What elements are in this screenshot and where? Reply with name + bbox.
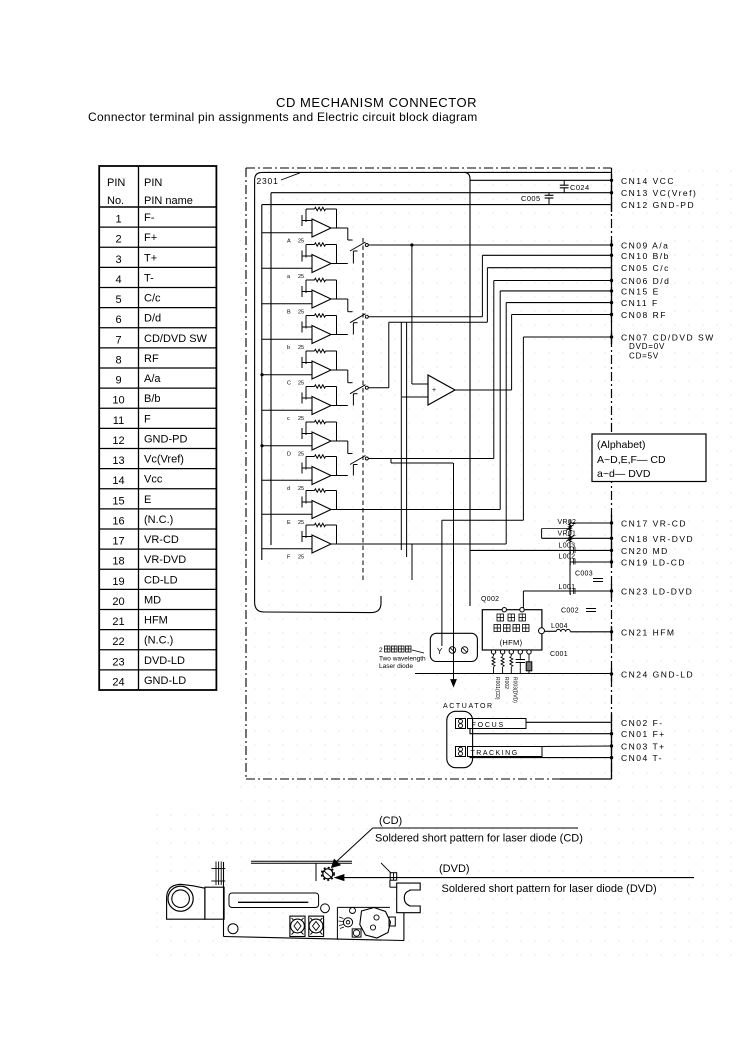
laser diode label [379, 646, 426, 670]
inductor L001 [559, 584, 576, 595]
svg-text:2301: 2301 [257, 176, 279, 186]
svg-text:L004: L004 [551, 623, 568, 630]
svg-text:R002: R002 [503, 677, 509, 689]
op-amp U6 (c channel) [262, 385, 348, 422]
wire MD to CN20 [470, 549, 612, 551]
svg-text:a~d— DVD: a~d— DVD [597, 468, 651, 480]
svg-text:L002: L002 [559, 554, 576, 561]
svg-text:CD MECHANISM CONNECTOR: CD MECHANISM CONNECTOR [276, 95, 477, 110]
svg-text:(N.C.): (N.C.) [144, 635, 173, 647]
op-amp U7 (D channel) [262, 420, 348, 457]
svg-text:VR-DVD: VR-DVD [144, 554, 186, 566]
leader DVD to bracket [381, 863, 391, 873]
svg-text:25: 25 [298, 555, 304, 561]
svg-text:CN20 MD: CN20 MD [621, 546, 669, 556]
mech screw shaft [211, 862, 225, 886]
pin CN02 [621, 718, 664, 728]
svg-text:FOCUS: FOCUS [472, 722, 506, 729]
svg-text:CN11 F: CN11 F [621, 298, 659, 308]
outer chain-line frame [246, 168, 612, 779]
mech DVD solder box [390, 873, 397, 888]
pin CN08 [610, 310, 667, 320]
svg-text:11: 11 [113, 415, 124, 427]
svg-text:Vc(Vref): Vc(Vref) [144, 454, 184, 466]
svg-text:CN09 A/a: CN09 A/a [621, 241, 669, 251]
svg-text:CN07 CD/DVD SW: CN07 CD/DVD SW [621, 333, 715, 343]
svg-text:Soldered short pattern for las: Soldered short pattern for laser diode (… [375, 833, 583, 845]
switch SW3 [348, 370, 369, 406]
HFM output pin [539, 628, 545, 634]
mech sled screw [350, 908, 362, 938]
svg-text:F+: F+ [144, 232, 157, 244]
svg-text:3: 3 [115, 254, 121, 266]
svg-text:25: 25 [298, 452, 304, 458]
svg-text:21: 21 [112, 616, 124, 628]
svg-text:CN24 GND-LD: CN24 GND-LD [621, 670, 694, 680]
svg-text:CD=5V: CD=5V [629, 352, 659, 361]
svg-text:PIN: PIN [107, 177, 125, 189]
svg-text:25: 25 [298, 239, 304, 245]
svg-text:E: E [144, 494, 151, 506]
connector column CN line [611, 168, 613, 779]
svg-text:CN12 GND-PD: CN12 GND-PD [621, 200, 695, 210]
callout (DVD) [344, 863, 694, 895]
resistor R001(CD) [492, 654, 500, 700]
svg-text:CN03 T+: CN03 T+ [621, 742, 666, 752]
svg-text:Q002: Q002 [481, 596, 499, 603]
svg-text:25: 25 [298, 345, 304, 351]
wire F- to CN02 [526, 721, 612, 723]
callout (CD) [373, 815, 583, 845]
svg-text:Laser diode: Laser diode [379, 663, 413, 670]
wire B/b to CN10 [368, 255, 611, 316]
switch SW4 [348, 441, 369, 476]
capacitor C001 [516, 651, 568, 674]
svg-text:16: 16 [112, 515, 124, 527]
potentiometer VR01 [558, 531, 577, 543]
svg-text:Soldered short pattern for las: Soldered short pattern for laser diode (… [442, 883, 657, 895]
svg-text:L001: L001 [559, 584, 576, 591]
svg-text:(HFM): (HFM) [500, 638, 523, 647]
mech motor 1 [290, 916, 305, 936]
svg-text:CN17 VR-CD: CN17 VR-CD [621, 519, 687, 529]
solder pattern gear CD [322, 868, 335, 881]
svg-text:MD: MD [144, 594, 161, 606]
svg-text:25: 25 [298, 381, 304, 387]
svg-text:DVD-LD: DVD-LD [144, 655, 185, 667]
wire to laser diode anode [441, 520, 443, 646]
svg-text:(Alphabet): (Alphabet) [597, 439, 645, 451]
op-amp U1 (A channel) [262, 207, 348, 244]
wire CD/DVD SW to CN07 [442, 337, 612, 520]
wire T+ to CN03 [542, 745, 612, 748]
op-amp U2 (a channel) [262, 243, 348, 280]
svg-text:VR01: VR01 [558, 531, 577, 538]
svg-text:Connector terminal pin assignm: Connector terminal pin assignments and E… [88, 110, 477, 124]
svg-text:CN04 T-: CN04 T- [621, 753, 663, 763]
svg-text:CN05 C/c: CN05 C/c [621, 263, 670, 273]
scan dot background [240, 166, 740, 806]
svg-text:8: 8 [115, 354, 121, 366]
pin CN05 [621, 263, 670, 273]
wire laser return with arrow [391, 459, 456, 687]
svg-text:(CD): (CD) [379, 815, 402, 827]
pin CN20 [610, 546, 669, 556]
switch SW2 [348, 299, 369, 335]
svg-text:14: 14 [112, 475, 124, 487]
svg-text:CN23 LD-DVD: CN23 LD-DVD [621, 587, 693, 597]
mech spindle assembly [360, 908, 391, 939]
pin CN12 [621, 200, 695, 210]
svg-text:T-: T- [144, 272, 154, 284]
inductor L002 [559, 554, 576, 566]
svg-text:CN13 VC(Vref): CN13 VC(Vref) [621, 188, 697, 198]
wire A/a to CN09 [368, 244, 611, 246]
op-amp U3 (B channel) [262, 278, 348, 315]
wire GND-PD to CN12 [262, 204, 612, 206]
wire T- to CN04 [470, 757, 612, 758]
svg-text:c: c [287, 416, 290, 422]
op-amp U5 (C channel) [262, 349, 348, 386]
capacitor C024 [560, 180, 590, 192]
svg-text:18: 18 [112, 556, 124, 568]
svg-text:D: D [287, 452, 291, 458]
svg-text:6: 6 [115, 314, 121, 326]
svg-text:F-: F- [144, 212, 155, 224]
svg-text:CD/DVD SW: CD/DVD SW [144, 333, 208, 345]
svg-text:C001: C001 [550, 651, 568, 658]
wire VR-DVD to CN18 [542, 529, 612, 539]
pin CN04 [610, 753, 663, 763]
resistor R002 [501, 654, 509, 689]
svg-text:CN18 VR-DVD: CN18 VR-DVD [621, 534, 694, 544]
svg-text:C/c: C/c [144, 293, 161, 305]
svg-text:d: d [287, 486, 290, 492]
mech clamp bracket [397, 883, 421, 913]
svg-text:CN14 VCC: CN14 VCC [621, 176, 675, 186]
svg-text:CN08 RF: CN08 RF [621, 310, 667, 320]
capacitor C003 [575, 571, 603, 582]
svg-text:F: F [144, 413, 151, 425]
svg-text:C002: C002 [561, 608, 579, 615]
svg-text:VR02: VR02 [558, 519, 577, 526]
wire F+ to CN01 [470, 729, 612, 734]
potentiometer VR02 [558, 519, 577, 531]
mech hole left [228, 924, 238, 934]
svg-text:17: 17 [112, 536, 124, 548]
switch SW1 [348, 228, 369, 264]
svg-text:DVD=0V: DVD=0V [629, 342, 665, 351]
svg-text:C003: C003 [575, 571, 593, 578]
svg-text:A: A [287, 239, 291, 245]
svg-text:RF: RF [144, 353, 159, 365]
mech body outline [224, 862, 405, 941]
svg-text:25: 25 [298, 416, 304, 422]
svg-text:GND-LD: GND-LD [144, 675, 186, 687]
svg-text:C005: C005 [521, 194, 541, 203]
svg-text:VR-CD: VR-CD [144, 534, 179, 546]
svg-text:13: 13 [112, 455, 124, 467]
wire HFM ground pin with bead L005 [528, 654, 530, 673]
pin CN07 [610, 333, 715, 343]
inductor L003 [559, 543, 576, 555]
svg-text:CD-LD: CD-LD [144, 574, 178, 586]
svg-text:15: 15 [112, 495, 124, 507]
svg-text:HFM: HFM [144, 615, 168, 627]
svg-text:25: 25 [298, 310, 304, 316]
wire LD-CD to CN19 [570, 561, 612, 563]
pin CN17 [610, 519, 687, 529]
mech hole right of slot [321, 904, 330, 913]
wire VCC to CN14 [464, 172, 470, 606]
resistor R003(DVD) [510, 654, 518, 703]
pin CN10 [610, 251, 670, 261]
svg-text:PIN name: PIN name [144, 195, 193, 207]
svg-text:b: b [287, 345, 290, 351]
svg-text:CN02 F-: CN02 F- [621, 718, 664, 728]
mech left bearing block [167, 884, 205, 919]
svg-text:CN19 LD-CD: CN19 LD-CD [621, 558, 686, 568]
svg-text:D/d: D/d [144, 313, 161, 325]
op-amp U9 (E channel) [262, 489, 348, 526]
svg-text:R003(DVD): R003(DVD) [512, 677, 518, 703]
svg-text:CN06 D/d: CN06 D/d [621, 276, 670, 286]
svg-text:R001(CD): R001(CD) [494, 677, 500, 700]
pin CN23 [610, 587, 693, 597]
pin CN11 [610, 298, 659, 308]
svg-text:No.: No. [107, 195, 124, 207]
svg-text:ACTUATOR: ACTUATOR [443, 703, 494, 710]
svg-text:19: 19 [112, 576, 124, 588]
component chain stem [569, 520, 571, 594]
wire RF to CN08 [455, 315, 612, 391]
svg-text:Y: Y [437, 647, 443, 656]
HFM block kanji text line1 [497, 614, 526, 621]
svg-text:Vcc: Vcc [144, 474, 163, 486]
wire D/d to CN06 [368, 281, 611, 459]
svg-text:1: 1 [115, 214, 121, 226]
wire Vc(Vref) to CN13 [271, 192, 612, 194]
pin CN03 [610, 742, 666, 752]
svg-text:A~D,E,F— CD: A~D,E,F— CD [597, 454, 666, 466]
wire junction drop [411, 245, 413, 384]
leader arrow CD [332, 828, 373, 868]
svg-text:10: 10 [112, 395, 124, 407]
svg-text:(N.C.): (N.C.) [144, 514, 173, 526]
op-amp U10 (F channel) [262, 523, 348, 560]
wire GND-LD to CN24 [415, 673, 612, 675]
svg-text:2: 2 [379, 647, 383, 654]
wire RF input drops [401, 322, 412, 580]
svg-text:E: E [287, 520, 291, 526]
mech top plate [251, 861, 352, 881]
leader arrow DVD [335, 875, 344, 881]
HFM block kanji text line2 [494, 625, 529, 632]
svg-text:Two wavelength: Two wavelength [379, 656, 426, 663]
mech worm gear [339, 917, 353, 929]
svg-text:CN21 HFM: CN21 HFM [621, 627, 676, 637]
svg-text:25: 25 [298, 274, 304, 280]
wire F to CN11 [331, 303, 612, 544]
op-amp U8 (d channel) [262, 455, 348, 492]
capacitor C005 [521, 193, 553, 205]
svg-text:2: 2 [115, 234, 121, 246]
pin CN15 [610, 286, 660, 296]
svg-text:4: 4 [115, 274, 121, 286]
inductor L004 on HFM wire to CN21 [545, 623, 612, 632]
CN07 voltage note [629, 342, 665, 361]
pin CN13 [610, 188, 698, 198]
pin CN01 [610, 729, 666, 739]
svg-text:20: 20 [112, 596, 124, 608]
wire E to CN15 [331, 291, 612, 510]
svg-text:24: 24 [112, 676, 124, 688]
wire VR-CD to CN17 [570, 522, 612, 524]
svg-text:(DVD): (DVD) [439, 863, 470, 875]
svg-text:A/a: A/a [144, 373, 161, 385]
actuator outline [447, 711, 473, 767]
svg-text:+: + [432, 387, 436, 394]
svg-text:T+: T+ [144, 252, 157, 264]
op-amp U4 (b channel) [262, 314, 348, 351]
pin assignment table [99, 166, 216, 690]
HFM circuit block [482, 608, 542, 651]
mech motor 2 [309, 916, 324, 936]
svg-text:25: 25 [298, 520, 304, 526]
svg-text:L003: L003 [559, 543, 576, 550]
pickup boundary dashed line [362, 238, 364, 583]
mech slot [229, 893, 319, 908]
pin CN21 [610, 627, 676, 637]
svg-text:23: 23 [112, 656, 124, 668]
svg-text:7: 7 [115, 334, 121, 346]
svg-text:CN01 F+: CN01 F+ [621, 729, 666, 739]
svg-text:GND-PD: GND-PD [144, 433, 187, 445]
alphabet legend box [592, 434, 706, 482]
svg-text:CN10 B/b: CN10 B/b [621, 251, 670, 261]
svg-text:CN15 E: CN15 E [621, 286, 660, 296]
mech right tab [389, 917, 395, 926]
laser diode package [430, 633, 477, 661]
pin CN18 [610, 534, 694, 544]
svg-text:B: B [287, 310, 291, 316]
focus coil [456, 719, 527, 730]
svg-text:PIN: PIN [144, 177, 162, 189]
pin CN24 [610, 670, 694, 680]
svg-text:B/b: B/b [144, 393, 161, 405]
pin CN06 [610, 276, 671, 286]
svg-text:C: C [287, 381, 291, 387]
wire C/c to CN05 [368, 268, 611, 388]
svg-text:TRACKING: TRACKING [471, 750, 519, 757]
svg-text:C024: C024 [570, 183, 590, 192]
bus junction dots [260, 373, 263, 376]
pin CN09 [610, 241, 670, 251]
HFM bottom pins [491, 650, 531, 654]
wire LD-DVD to CN23 [523, 591, 611, 608]
flex cable loop 2301 [255, 172, 612, 612]
svg-text:9: 9 [115, 375, 121, 387]
svg-text:22: 22 [112, 636, 124, 648]
op-amp U11 RF summing amp [402, 375, 455, 405]
mech bracket rect [205, 887, 224, 919]
capacitor C002 [561, 608, 596, 615]
pin CN14 [610, 176, 675, 186]
svg-text:12: 12 [112, 435, 124, 447]
pin CN19 [610, 558, 686, 568]
svg-text:25: 25 [298, 486, 304, 492]
tracking coil [456, 747, 543, 758]
svg-text:5: 5 [115, 294, 121, 306]
